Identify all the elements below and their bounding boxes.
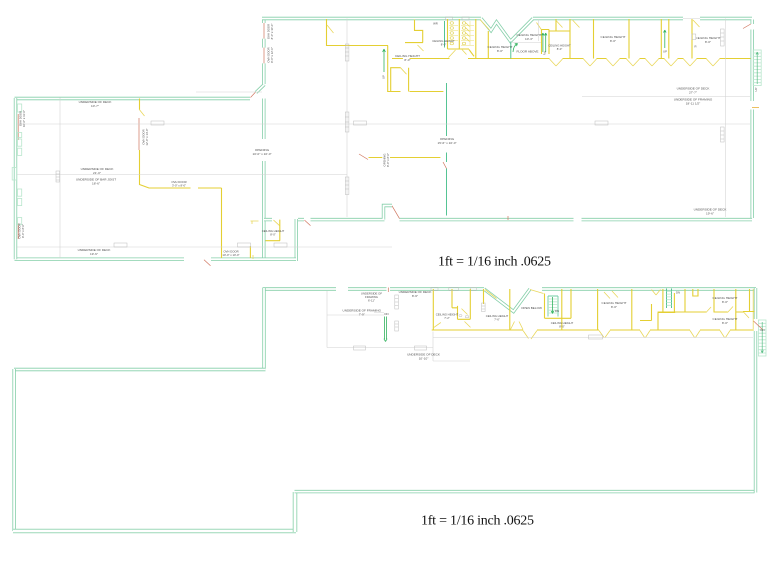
arrow: curved green arrow near vestibule <box>513 44 518 53</box>
svg-text:8'-0": 8'-0" <box>610 39 616 43</box>
window marker on plan2 wall <box>471 288 477 291</box>
svg-text:8'-0": 8'-0" <box>722 300 728 304</box>
wall: plan1 mid vertical x263.8 with opening <box>262 99 265 260</box>
wall: yellow stub at bottom wall <box>249 246 251 258</box>
svg-text:15'-6" x 10'-0": 15'-6" x 10'-0" <box>437 141 456 145</box>
wall: plan1 left <box>14 98 17 259</box>
stairwell: x661-669 with UP arrow <box>661 19 669 59</box>
wall: plan1 step jog <box>264 206 392 220</box>
label: ovh door on x139 wall <box>142 128 150 145</box>
wall: plan2 bottom y527 <box>13 529 296 534</box>
svg-text:6'-11": 6'-11" <box>368 299 375 303</box>
svg-text:3'-0" x 8'-0": 3'-0" x 8'-0" <box>172 184 186 188</box>
door: red diag in y219.5 wall <box>305 220 311 226</box>
svg-text:WR: WR <box>433 22 438 26</box>
wall: plan2 left x15.8 <box>12 369 15 531</box>
svg-text:7'-6": 7'-6" <box>494 318 500 322</box>
label: ovh door rot 8x12 <box>267 47 275 63</box>
svg-text:8'-0": 8'-0" <box>559 325 565 329</box>
room walls: x556-570 <box>549 19 570 59</box>
svg-text:UP: UP <box>382 75 386 79</box>
door: red overhead door segment <box>138 118 140 150</box>
wall: yellow hugging right wall <box>752 289 754 329</box>
svg-text:10'-0" x 11'-0": 10'-0" x 11'-0" <box>22 110 26 127</box>
svg-text:DN: DN <box>384 312 388 316</box>
door: tick on plan2 top wall <box>387 288 389 293</box>
door: yellow diag to stairwell <box>480 20 542 31</box>
wall: yellow y157 <box>369 157 441 159</box>
label: ovh door left top <box>19 110 27 127</box>
wall: yellow x629 <box>628 19 630 59</box>
wall: plan1 top right of notch <box>533 17 752 20</box>
svg-text:R: R <box>694 45 696 49</box>
stair: plan2 DN stair right <box>758 320 766 356</box>
svg-text:10'-0" x 10'-0": 10'-0" x 10'-0" <box>252 152 271 156</box>
svg-text:10'-3": 10'-3" <box>525 37 533 41</box>
svg-text:10'-10": 10'-10" <box>419 357 429 361</box>
svg-text:8'-0": 8'-0" <box>404 58 410 62</box>
wall: plan2 top <box>263 287 757 290</box>
stair: plan2 stair1 x544-561 switchback <box>548 296 559 317</box>
dim: gray verticals plan1 <box>60 19 726 259</box>
wall: plan1 bottom right <box>400 218 753 221</box>
wall: plan1 right <box>751 20 754 219</box>
column: pilaster bumps on plan1 left wall <box>12 104 22 225</box>
wall: plan1 entry notch W <box>481 19 533 42</box>
svg-text:18'-11 1/2": 18'-11 1/2" <box>686 102 701 106</box>
wall: yellow T at x414-423 <box>405 20 423 43</box>
svg-text:DN: DN <box>555 309 559 313</box>
wall: plan2 left vertical x264 <box>262 288 265 370</box>
door: swing right of x326.5 <box>327 25 334 33</box>
door: swing diag on x139.5 <box>140 110 145 116</box>
svg-text:FLOOR ABOVE: FLOOR ABOVE <box>516 50 538 54</box>
svg-text:8'-0": 8'-0" <box>611 305 617 309</box>
wall: plan1 left-section top <box>15 97 251 100</box>
label: ovh door rot 8x10 <box>267 24 275 40</box>
wall: plan2 right x754.6 <box>754 288 757 493</box>
svg-text:27'-7": 27'-7" <box>689 91 697 95</box>
wall: vestibule verticals <box>487 31 489 59</box>
wall: plan1 top <box>262 17 481 20</box>
svg-text:9'-0" x 8'-0": 9'-0" x 8'-0" <box>21 224 25 238</box>
svg-text:1ft = 1/16 inch .0625: 1ft = 1/16 inch .0625 <box>421 514 534 529</box>
label: opening rot 8x8 <box>383 153 391 167</box>
svg-text:8'-0" x 12'-0": 8'-0" x 12'-0" <box>270 47 274 63</box>
wall: plan2 bottom-right y492 <box>295 490 755 493</box>
svg-text:18'-6": 18'-6" <box>92 182 100 186</box>
svg-text:7'-2": 7'-2" <box>444 316 450 320</box>
door: small orange tick on right wall gap <box>752 107 759 109</box>
door: red swing in bottom wall gap <box>204 260 211 266</box>
door: OVH doors on upper-left wall (red) <box>263 23 265 63</box>
window markers on plan2 top wall <box>431 287 438 290</box>
wall: plan1 connector vertical x296.3 <box>295 219 298 261</box>
svg-text:DN: DN <box>676 291 680 295</box>
wall: main yellow wall y58.5 <box>392 58 751 60</box>
dim: hatch rects plan1 <box>56 29 724 195</box>
svg-text:UP: UP <box>663 50 667 54</box>
svg-text:8'-0": 8'-0" <box>557 47 563 51</box>
wall: plan2 main yellow y330 <box>432 329 754 331</box>
door: red diag at top wall end <box>251 91 258 98</box>
wall: plan1 left-section bottom <box>15 258 297 261</box>
svg-text:UP: UP <box>754 87 758 91</box>
svg-text:21'-0": 21'-0" <box>93 171 101 175</box>
svg-text:UP: UP <box>542 50 547 55</box>
wall: plan2 step x294.5 <box>293 492 298 532</box>
svg-text:8'-0": 8'-0" <box>497 49 503 53</box>
room: small room x390-409 <box>391 68 409 92</box>
svg-text:10'-7": 10'-7" <box>91 104 99 108</box>
svg-text:10'-0" x 10'-0": 10'-0" x 10'-0" <box>222 253 239 257</box>
bathroom: stalls x447-476 <box>445 19 476 59</box>
svg-text:12'-0" x 14'-0": 12'-0" x 14'-0" <box>145 128 149 145</box>
door: red diagonal at x=396 and tick <box>392 206 508 220</box>
stairwell: x541-549 with UP arrows <box>542 30 550 56</box>
bathroom: plan2 fixtures <box>459 314 462 316</box>
wall: plan2 yellow verticals top rooms <box>433 289 754 330</box>
svg-text:1ft = 1/16 inch .0625: 1ft = 1/16 inch .0625 <box>438 255 551 270</box>
door: swings at plan2 main wall <box>434 322 730 340</box>
svg-text:7'-9": 7'-9" <box>359 313 365 317</box>
dim: small label boxes plan1 <box>114 121 608 247</box>
stair arrow: DN near x385 <box>384 312 389 342</box>
dim: hatch rects plan2 <box>395 295 485 331</box>
label: ovh door left bottom <box>18 223 26 238</box>
svg-text:8'-0" x 10'-0": 8'-0" x 10'-0" <box>270 24 274 40</box>
door: yellow swing at room <box>274 220 280 226</box>
dim: gray plan2 <box>327 291 753 361</box>
svg-text:8'-0": 8'-0" <box>441 43 447 47</box>
door: red overhead doors on left wall <box>17 114 19 239</box>
svg-text:8'-0": 8'-0" <box>722 321 728 325</box>
wall: yellow x593.5 <box>593 19 595 59</box>
dim: gray horizontals plan1 <box>17 19 750 247</box>
wall: yellow vertical x139.5 <box>140 99 222 259</box>
wall: plan2 entry V <box>484 289 530 312</box>
wall: yellow x692 <box>691 19 693 59</box>
wall: yellow x326.5 and y45.5 <box>327 19 389 46</box>
stair arrow: UP at x384 <box>382 49 386 79</box>
svg-text:8'-0": 8'-0" <box>705 40 711 44</box>
svg-text:19'-6": 19'-6" <box>706 212 714 216</box>
door: red diag to stair2 <box>754 321 763 330</box>
door: top-right red diagonal <box>743 24 751 29</box>
svg-text:8'-0" x 8'-0": 8'-0" x 8'-0" <box>386 153 390 167</box>
dim: label boxes plan2 <box>354 335 603 350</box>
stair: plan2 stair2 x666-672 <box>667 289 681 309</box>
svg-text:19'-6": 19'-6" <box>90 252 98 256</box>
door: swings below main wall <box>550 59 720 66</box>
wall: yellow x387.7 down to y91.5 <box>388 46 444 92</box>
wall: plan2 upper-left horizontal y371 <box>14 368 266 371</box>
svg-text:8'-6": 8'-6" <box>412 294 418 298</box>
room: yellow room below y219.5 <box>266 220 281 241</box>
svg-text:8'-0": 8'-0" <box>270 233 276 237</box>
wall: plan1 upper-left vertical <box>262 19 265 84</box>
wall: teal vertical x446.5 with opening <box>446 83 448 216</box>
svg-text:OPEN BELOW: OPEN BELOW <box>521 306 542 310</box>
wall: plan1 chamfer corner <box>256 85 264 93</box>
stair: plan1 right UP stair <box>753 50 761 91</box>
window markers on plan1 top wall <box>446 17 453 20</box>
